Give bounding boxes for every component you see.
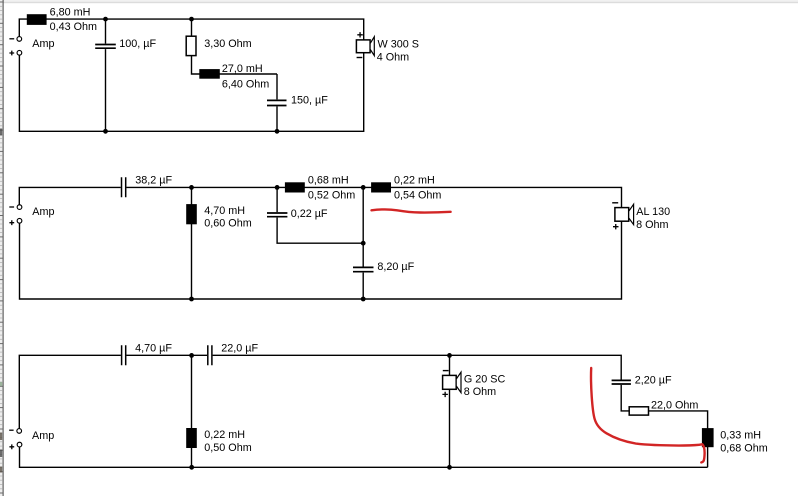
svg-text:Amp: Amp — [32, 206, 54, 218]
svg-text:0,50 Ohm: 0,50 Ohm — [204, 442, 251, 454]
svg-text:W 300 S: W 300 S — [378, 39, 419, 51]
svg-text:27,0 mH: 27,0 mH — [222, 63, 263, 75]
svg-text:6,80 mH: 6,80 mH — [50, 7, 91, 19]
svg-text:150, µF: 150, µF — [291, 95, 328, 107]
svg-text:8,20 µF: 8,20 µF — [377, 261, 414, 273]
svg-text:Amp: Amp — [32, 430, 54, 442]
svg-text:0,52 Ohm: 0,52 Ohm — [308, 189, 355, 201]
svg-text:4 Ohm: 4 Ohm — [377, 51, 409, 63]
svg-text:0,68 mH: 0,68 mH — [308, 174, 349, 186]
svg-text:0,22 mH: 0,22 mH — [394, 174, 435, 186]
svg-text:38,2 µF: 38,2 µF — [135, 174, 172, 186]
svg-text:8 Ohm: 8 Ohm — [464, 386, 496, 398]
svg-text:0,22 µF: 0,22 µF — [291, 208, 328, 220]
svg-text:22,0 Ohm: 22,0 Ohm — [651, 399, 698, 411]
svg-text:0,43 Ohm: 0,43 Ohm — [50, 21, 97, 33]
svg-text:0,33 mH: 0,33 mH — [720, 429, 761, 441]
svg-text:AL 130: AL 130 — [636, 206, 670, 218]
svg-text:8 Ohm: 8 Ohm — [636, 219, 668, 231]
svg-text:4,70 mH: 4,70 mH — [204, 205, 245, 217]
svg-text:0,68 Ohm: 0,68 Ohm — [720, 442, 767, 454]
svg-text:4,70 µF: 4,70 µF — [135, 343, 172, 355]
svg-text:0,54 Ohm: 0,54 Ohm — [394, 189, 441, 201]
svg-text:22,0 µF: 22,0 µF — [221, 343, 258, 355]
svg-text:2,20 µF: 2,20 µF — [635, 375, 672, 387]
svg-text:100, µF: 100, µF — [119, 38, 156, 50]
svg-text:Amp: Amp — [32, 38, 54, 50]
svg-text:6,40 Ohm: 6,40 Ohm — [222, 79, 269, 91]
svg-text:0,60 Ohm: 0,60 Ohm — [204, 217, 251, 229]
svg-text:0,22 mH: 0,22 mH — [204, 429, 245, 441]
svg-text:3,30 Ohm: 3,30 Ohm — [204, 38, 251, 50]
svg-text:G 20 SC: G 20 SC — [464, 374, 506, 386]
